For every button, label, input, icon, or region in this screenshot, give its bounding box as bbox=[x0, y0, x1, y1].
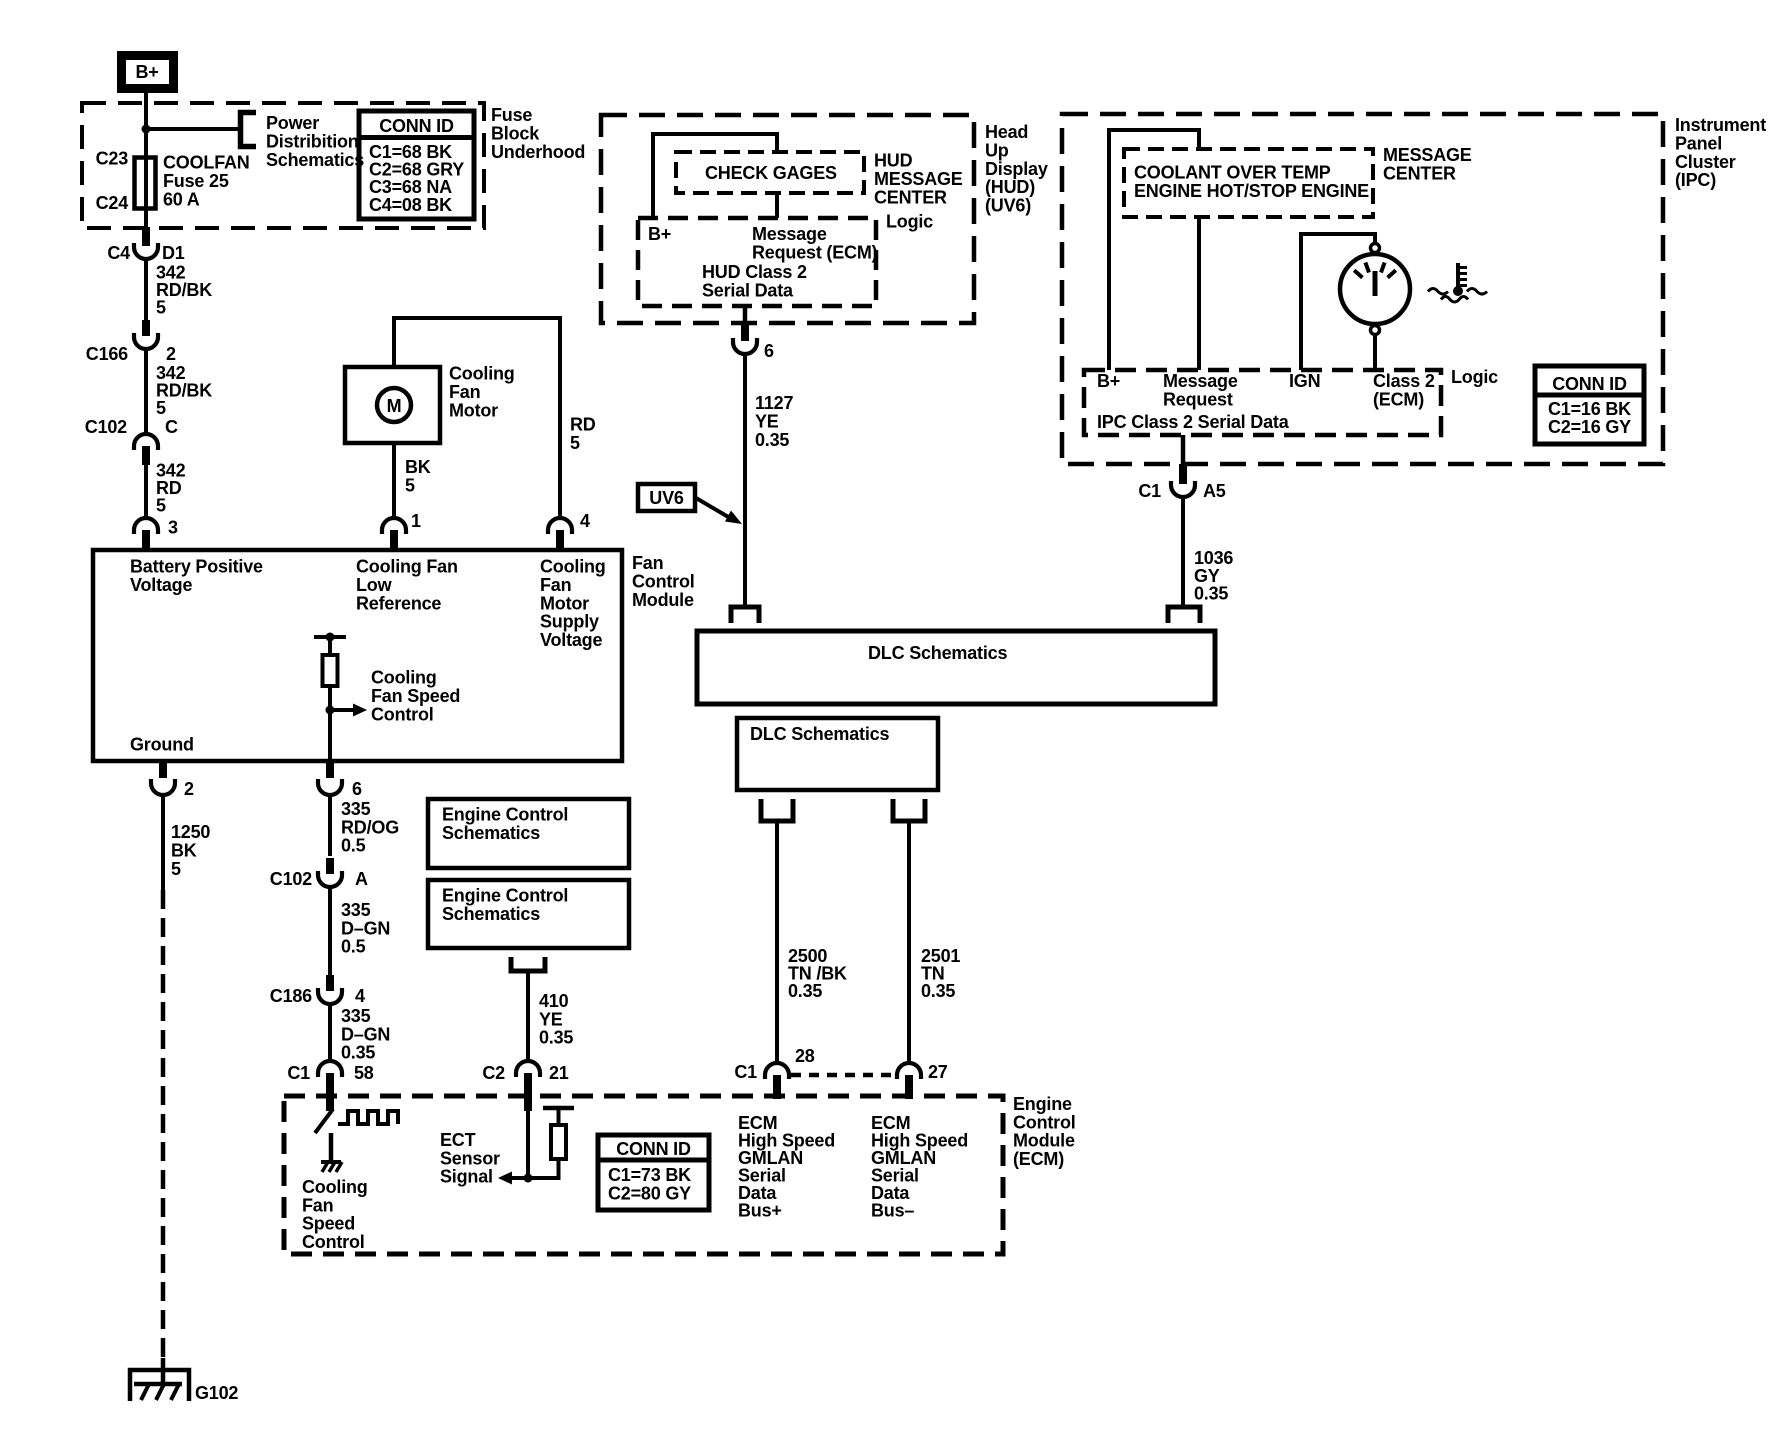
svg-text:0.35: 0.35 bbox=[788, 981, 822, 1001]
svg-text:Cooling: Cooling bbox=[302, 1177, 368, 1197]
wire 1127 YE 0.35 bbox=[745, 353, 793, 605]
label Cooling Fan Speed Control ECM bbox=[302, 1177, 368, 1252]
connector C102 pin A bbox=[270, 858, 368, 889]
label Battery Positive Voltage bbox=[130, 557, 263, 595]
wire motor low reference BK 5 bbox=[394, 443, 431, 518]
connector C186 pin 4 bbox=[270, 975, 365, 1006]
label Fan Control Module bbox=[632, 553, 695, 610]
svg-text:4: 4 bbox=[355, 986, 365, 1006]
svg-text:2: 2 bbox=[166, 344, 176, 364]
svg-text:Control: Control bbox=[302, 1232, 365, 1252]
label MESSAGE CENTER IPC bbox=[1383, 145, 1472, 183]
svg-text:Message: Message bbox=[1163, 371, 1238, 391]
svg-text:Fan: Fan bbox=[449, 382, 480, 402]
pwm waveform symbol bbox=[338, 1111, 398, 1124]
svg-text:C2: C2 bbox=[482, 1063, 505, 1083]
svg-text:Instrument: Instrument bbox=[1675, 115, 1766, 135]
wire 335 D-GN 0.5 bbox=[330, 886, 390, 977]
svg-text:C4=08 BK: C4=08 BK bbox=[369, 195, 452, 215]
svg-text:Logic: Logic bbox=[886, 212, 933, 232]
svg-text:Bus–: Bus– bbox=[871, 1201, 914, 1221]
connector pin 1 fan control module bbox=[382, 511, 421, 551]
connector C4 pin D1 bbox=[107, 227, 184, 263]
coolant over temp dashed box bbox=[1124, 149, 1373, 217]
svg-text:21: 21 bbox=[549, 1063, 569, 1083]
svg-text:Engine: Engine bbox=[1013, 1094, 1072, 1114]
check gages dashed box bbox=[676, 152, 864, 193]
svg-text:C186: C186 bbox=[270, 986, 312, 1006]
wire 410 YE 0.35 bbox=[528, 973, 573, 1061]
wire ECT signal inside ECM bbox=[526, 1111, 530, 1178]
svg-text:B+: B+ bbox=[1097, 371, 1120, 391]
svg-text:335: 335 bbox=[341, 1006, 371, 1026]
engine control schematics box 1 bbox=[428, 799, 629, 868]
power symbol B+ battery positive bbox=[122, 56, 174, 89]
node junction dot ECT bbox=[524, 1174, 533, 1183]
svg-text:C23: C23 bbox=[96, 149, 129, 169]
svg-text:D–GN: D–GN bbox=[341, 1024, 390, 1044]
svg-text:Voltage: Voltage bbox=[130, 575, 192, 595]
switch cooling fan speed control driver bbox=[315, 1109, 333, 1162]
svg-text:G102: G102 bbox=[195, 1383, 238, 1403]
svg-text:Fan: Fan bbox=[302, 1195, 333, 1215]
svg-text:1127: 1127 bbox=[755, 393, 793, 413]
svg-text:Class 2: Class 2 bbox=[1373, 371, 1435, 391]
svg-text:Cooling: Cooling bbox=[449, 364, 515, 384]
svg-text:5: 5 bbox=[156, 298, 166, 318]
svg-text:(ECM): (ECM) bbox=[1373, 390, 1424, 410]
svg-text:(HUD): (HUD) bbox=[985, 177, 1035, 197]
svg-text:Bus+: Bus+ bbox=[738, 1201, 782, 1221]
svg-text:(UV6): (UV6) bbox=[985, 196, 1031, 216]
svg-text:Cooling: Cooling bbox=[371, 668, 437, 688]
svg-text:Cluster: Cluster bbox=[1675, 152, 1736, 172]
svg-text:Fan Speed: Fan Speed bbox=[371, 686, 460, 706]
svg-text:CENTER: CENTER bbox=[1383, 163, 1456, 183]
svg-text:C: C bbox=[165, 417, 178, 437]
label Fuse Block Underhood bbox=[491, 105, 585, 162]
svg-text:335: 335 bbox=[341, 900, 371, 920]
svg-text:0.35: 0.35 bbox=[341, 1043, 375, 1063]
svg-text:Motor: Motor bbox=[540, 593, 589, 613]
connector C102 pin C bbox=[85, 417, 178, 465]
svg-text:5: 5 bbox=[156, 496, 166, 516]
svg-text:335: 335 bbox=[341, 799, 371, 819]
svg-text:0.5: 0.5 bbox=[341, 937, 366, 957]
connector C166 pin 2 bbox=[86, 320, 176, 364]
svg-text:RD: RD bbox=[570, 415, 596, 435]
svg-text:3: 3 bbox=[168, 518, 178, 538]
svg-text:C1=16 BK: C1=16 BK bbox=[1548, 399, 1631, 419]
svg-text:C102: C102 bbox=[85, 417, 127, 437]
svg-text:58: 58 bbox=[354, 1063, 374, 1083]
terminal bracket below engine control schematics bbox=[511, 957, 545, 971]
svg-text:0.35: 0.35 bbox=[921, 981, 955, 1001]
wire 1036 GY 0.35 bbox=[1183, 496, 1233, 605]
svg-text:C2=80 GY: C2=80 GY bbox=[608, 1183, 691, 1203]
resistor ECT pull-up bbox=[528, 1108, 574, 1178]
svg-text:UV6: UV6 bbox=[649, 488, 684, 508]
svg-text:1250: 1250 bbox=[171, 822, 210, 842]
label Cooling Fan Low Reference bbox=[356, 557, 458, 614]
connector C1 pin 58 ECM bbox=[287, 1061, 373, 1111]
off-page connector Power Distribition Schematics bbox=[241, 113, 365, 170]
svg-text:Module: Module bbox=[1013, 1131, 1075, 1151]
wire message request HUD bbox=[775, 193, 779, 218]
ground G102 bbox=[130, 1358, 238, 1403]
svg-text:28: 28 bbox=[795, 1046, 815, 1066]
wire speed control arrow bbox=[330, 668, 460, 725]
wire IPC message request bbox=[1197, 217, 1201, 370]
wire IPC IGN bbox=[1301, 234, 1375, 370]
svg-text:CENTER: CENTER bbox=[874, 187, 947, 207]
svg-text:Distribition: Distribition bbox=[266, 131, 359, 151]
svg-text:C1: C1 bbox=[1138, 481, 1161, 501]
svg-text:C166: C166 bbox=[86, 344, 128, 364]
fan control module box bbox=[93, 550, 622, 761]
svg-text:C2=16 GY: C2=16 GY bbox=[1548, 417, 1631, 437]
engine control module dashed box bbox=[284, 1096, 1003, 1254]
svg-text:(ECM): (ECM) bbox=[1013, 1149, 1064, 1169]
connector pin 2 fan control module ground bbox=[151, 761, 194, 799]
svg-text:COOLANT OVER TEMP: COOLANT OVER TEMP bbox=[1134, 163, 1331, 183]
callout UV6 box with arrow bbox=[638, 484, 742, 524]
wire 2501 TN 0.35 bbox=[909, 823, 960, 1063]
svg-text:Fan: Fan bbox=[632, 553, 663, 573]
wire 342 RD/BK 5 bbox=[146, 258, 212, 320]
arrow ECT sensor signal bbox=[440, 1130, 528, 1187]
svg-text:B+: B+ bbox=[648, 224, 671, 244]
svg-text:YE: YE bbox=[539, 1009, 563, 1029]
label Engine Control Module ECM bbox=[1013, 1094, 1076, 1169]
resistor cooling fan speed control bbox=[314, 633, 346, 762]
svg-text:DLC Schematics: DLC Schematics bbox=[750, 724, 889, 744]
DLC schematics box bbox=[697, 631, 1215, 704]
svg-text:Power: Power bbox=[266, 113, 319, 133]
node junction dot speed control tap bbox=[326, 706, 335, 715]
label Instrument Panel Cluster IPC bbox=[1675, 115, 1766, 190]
svg-text:Sensor: Sensor bbox=[440, 1148, 500, 1168]
svg-text:Display: Display bbox=[985, 159, 1048, 179]
gauge coolant temperature bbox=[1340, 244, 1410, 335]
cooling fan motor M1 bbox=[345, 364, 515, 444]
head up display dashed box bbox=[601, 115, 974, 323]
svg-text:B+: B+ bbox=[135, 62, 158, 82]
wire dashed ground run bbox=[161, 890, 166, 1358]
svg-text:Underhood: Underhood bbox=[491, 142, 585, 162]
node junction dot power tap bbox=[142, 125, 151, 134]
svg-text:Up: Up bbox=[985, 140, 1009, 160]
svg-text:5: 5 bbox=[171, 859, 181, 879]
svg-text:BK: BK bbox=[405, 457, 431, 477]
svg-text:A5: A5 bbox=[1203, 481, 1226, 501]
svg-text:Speed: Speed bbox=[302, 1214, 355, 1234]
svg-text:IGN: IGN bbox=[1289, 371, 1320, 391]
wire 342 RD 5 bbox=[146, 461, 186, 519]
label Cooling Fan Motor Supply Voltage bbox=[540, 557, 606, 651]
svg-text:410: 410 bbox=[539, 991, 569, 1011]
wire 1250 BK 5 ground bbox=[163, 794, 210, 890]
svg-text:Motor: Motor bbox=[449, 400, 498, 420]
svg-text:A: A bbox=[355, 869, 368, 889]
wire IPC class 2 out bbox=[1181, 435, 1186, 465]
wire B+ to fuse bbox=[144, 93, 148, 158]
svg-text:Serial Data: Serial Data bbox=[702, 281, 794, 301]
connector pin 6 fan control module bbox=[318, 761, 362, 799]
wire 342 RD/BK 5 second bbox=[146, 348, 212, 435]
svg-text:Module: Module bbox=[632, 590, 694, 610]
svg-text:Reference: Reference bbox=[356, 593, 441, 613]
wire 335 D-GN 0.35 bbox=[330, 1003, 390, 1063]
svg-text:MESSAGE: MESSAGE bbox=[874, 169, 963, 189]
svg-text:D1: D1 bbox=[162, 243, 185, 263]
wire motor supply RD 5 bbox=[394, 318, 596, 518]
svg-text:Voltage: Voltage bbox=[540, 630, 602, 650]
svg-text:Head: Head bbox=[985, 122, 1028, 142]
fuse block underhood dashed box bbox=[82, 103, 484, 228]
svg-text:4: 4 bbox=[580, 511, 590, 531]
svg-text:Control: Control bbox=[632, 571, 695, 591]
wire gauge to logic bbox=[1373, 334, 1377, 370]
svg-text:5: 5 bbox=[405, 475, 415, 495]
wire 2500 TN/BK 0.35 bbox=[777, 823, 847, 1063]
wire 335 RD/OG 0.5 bbox=[330, 794, 399, 856]
svg-text:HUD: HUD bbox=[874, 151, 913, 171]
svg-text:5: 5 bbox=[156, 398, 166, 418]
svg-text:Engine Control: Engine Control bbox=[442, 886, 568, 906]
svg-text:ECT: ECT bbox=[440, 1130, 476, 1150]
svg-text:Fuse: Fuse bbox=[491, 105, 532, 125]
svg-text:RD/OG: RD/OG bbox=[341, 817, 399, 837]
svg-text:CONN ID: CONN ID bbox=[616, 1139, 691, 1159]
connector C2 pin 21 ECM bbox=[482, 1061, 568, 1111]
wire dashed connector tie bbox=[791, 1073, 895, 1078]
coolant temperature symbol thermometer bbox=[1428, 263, 1487, 302]
IPC logic dashed box IPC Class 2 Serial Data bbox=[1084, 370, 1441, 435]
svg-text:0.35: 0.35 bbox=[755, 430, 789, 450]
svg-text:D–GN: D–GN bbox=[341, 918, 390, 938]
svg-text:0.35: 0.35 bbox=[1194, 584, 1228, 604]
terminal bracket DLC pin IPC wire bbox=[1168, 607, 1200, 623]
svg-text:5: 5 bbox=[570, 433, 580, 453]
instrument panel cluster dashed box bbox=[1062, 114, 1663, 464]
svg-text:6: 6 bbox=[352, 779, 362, 799]
DLC schematics lower box bbox=[737, 718, 938, 790]
svg-text:Cooling Fan: Cooling Fan bbox=[356, 557, 458, 577]
svg-text:COOLFAN: COOLFAN bbox=[163, 153, 250, 173]
svg-text:0.35: 0.35 bbox=[539, 1028, 573, 1048]
chassis ground ECM internal bbox=[321, 1162, 342, 1172]
conn id table IPC bbox=[1535, 366, 1644, 444]
svg-text:Schematics: Schematics bbox=[442, 904, 540, 924]
terminal bracket DLC pin HUD wire bbox=[731, 607, 759, 623]
fuse COOLFAN Fuse 25 60 A bbox=[96, 149, 250, 229]
svg-text:C24: C24 bbox=[96, 193, 129, 213]
connector C1 pin 28 ECM bbox=[734, 1046, 814, 1099]
svg-text:Message: Message bbox=[752, 224, 827, 244]
svg-text:BK: BK bbox=[171, 840, 197, 860]
svg-text:Ground: Ground bbox=[130, 735, 194, 755]
wire HUD B+ logic bbox=[653, 134, 777, 219]
svg-text:Logic: Logic bbox=[1451, 367, 1498, 387]
label ECM High Speed GMLAN Serial Data Bus- bbox=[871, 1113, 968, 1221]
svg-text:CONN ID: CONN ID bbox=[1552, 374, 1627, 394]
svg-text:CONN ID: CONN ID bbox=[379, 116, 454, 136]
svg-text:Fan: Fan bbox=[540, 575, 571, 595]
svg-text:DLC Schematics: DLC Schematics bbox=[868, 643, 1007, 663]
svg-text:Low: Low bbox=[356, 575, 393, 595]
connector C1 pin A5 IPC bbox=[1138, 464, 1225, 501]
svg-text:Block: Block bbox=[491, 123, 540, 143]
label ECM High Speed GMLAN Serial Data Bus+ bbox=[738, 1113, 835, 1221]
svg-text:Panel: Panel bbox=[1675, 133, 1722, 153]
svg-text:Engine Control: Engine Control bbox=[442, 805, 568, 825]
conn id table fuse block bbox=[359, 111, 474, 219]
svg-text:Supply: Supply bbox=[540, 612, 599, 632]
svg-text:Cooling: Cooling bbox=[540, 557, 606, 577]
svg-text:CHECK GAGES: CHECK GAGES bbox=[705, 163, 837, 183]
connector pin 4 fan control module bbox=[548, 511, 590, 551]
svg-text:MESSAGE: MESSAGE bbox=[1383, 145, 1472, 165]
connector pin 6 HUD bbox=[733, 306, 774, 361]
wire IPC B+ logic bbox=[1109, 130, 1199, 370]
connector pin 27 ECM bbox=[897, 1062, 948, 1099]
terminal bracket DLC bus+ bbox=[761, 799, 793, 821]
svg-text:27: 27 bbox=[928, 1062, 948, 1082]
svg-text:IPC Class 2 Serial Data: IPC Class 2 Serial Data bbox=[1097, 412, 1290, 432]
svg-text:C4: C4 bbox=[107, 243, 130, 263]
svg-text:C1: C1 bbox=[734, 1062, 757, 1082]
svg-text:(IPC): (IPC) bbox=[1675, 170, 1716, 190]
svg-text:C102: C102 bbox=[270, 869, 312, 889]
svg-text:Request (ECM): Request (ECM) bbox=[752, 243, 878, 263]
wire power distribution tap bbox=[146, 127, 240, 131]
svg-text:6: 6 bbox=[764, 341, 774, 361]
svg-text:Signal: Signal bbox=[440, 1167, 493, 1187]
HUD logic dashed box bbox=[638, 218, 878, 306]
engine control schematics box 2 bbox=[428, 880, 629, 948]
conn id table ECM bbox=[598, 1135, 709, 1210]
svg-text:C1=73 BK: C1=73 BK bbox=[608, 1165, 691, 1185]
svg-text:Fuse 25: Fuse 25 bbox=[163, 171, 229, 191]
svg-text:YE: YE bbox=[755, 411, 779, 431]
label HUD MESSAGE CENTER bbox=[874, 151, 963, 208]
svg-text:Request: Request bbox=[1163, 390, 1233, 410]
svg-text:60 A: 60 A bbox=[163, 189, 200, 209]
svg-text:Schematics: Schematics bbox=[442, 823, 540, 843]
svg-text:ENGINE HOT/STOP ENGINE: ENGINE HOT/STOP ENGINE bbox=[1134, 181, 1369, 201]
svg-text:HUD Class 2: HUD Class 2 bbox=[702, 262, 807, 282]
label Head Up Display HUD UV6 bbox=[985, 122, 1048, 216]
svg-text:M: M bbox=[387, 396, 402, 416]
svg-text:Battery Positive: Battery Positive bbox=[130, 557, 263, 577]
svg-text:C1: C1 bbox=[287, 1063, 310, 1083]
connector pin 3 fan control module bbox=[134, 518, 178, 552]
svg-text:Control: Control bbox=[1013, 1112, 1076, 1132]
svg-text:Schematics: Schematics bbox=[266, 150, 364, 170]
svg-text:Control: Control bbox=[371, 704, 434, 724]
terminal bracket DLC bus- bbox=[893, 799, 925, 821]
svg-text:1: 1 bbox=[411, 511, 421, 531]
svg-text:0.5: 0.5 bbox=[341, 836, 366, 856]
svg-text:2: 2 bbox=[184, 779, 194, 799]
